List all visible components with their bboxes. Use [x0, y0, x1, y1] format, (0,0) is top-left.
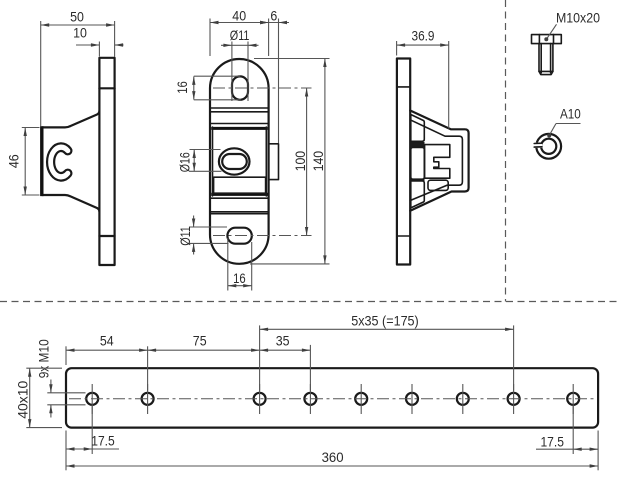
front view stadium outline	[210, 59, 269, 264]
dimension 6	[260, 8, 289, 143]
central block	[211, 127, 267, 196]
dimension 35	[260, 332, 311, 390]
svg-text:100: 100	[292, 151, 308, 172]
dimension 17.5 left	[66, 406, 119, 470]
svg-text:5x35 (=175): 5x35 (=175)	[351, 312, 419, 328]
svg-text:75: 75	[193, 332, 207, 348]
clip housing outer profile	[410, 111, 468, 211]
svg-text:17.5: 17.5	[91, 433, 115, 449]
dimension 40x10	[15, 368, 62, 427]
svg-text:M10x20: M10x20	[556, 9, 600, 25]
bolt label M10x20	[544, 9, 600, 41]
bolt head	[532, 35, 562, 44]
plate horizontal centerline	[69, 398, 595, 400]
svg-text:17.5: 17.5	[540, 433, 564, 449]
hole vertical centerlines	[92, 384, 573, 414]
step lines lower	[210, 197, 268, 199]
dimension 100	[292, 88, 309, 236]
dimension 360	[66, 449, 598, 468]
svg-text:Ø16: Ø16	[176, 152, 192, 172]
dimension 17.5 right	[536, 406, 598, 470]
dimension 75	[148, 325, 260, 390]
C-clip profile	[47, 143, 71, 180]
column segment middle	[411, 147, 425, 179]
right tab	[269, 144, 279, 180]
right view bar	[397, 59, 410, 265]
svg-text:10: 10	[73, 25, 87, 41]
svg-text:9x M10: 9x M10	[35, 339, 51, 378]
E-shaped clip section	[425, 145, 450, 179]
svg-text:16: 16	[174, 81, 190, 94]
svg-text:35: 35	[276, 332, 290, 348]
clip housing inner profile	[410, 120, 462, 201]
centre hole ellipse	[219, 148, 250, 174]
centerline top hole	[213, 87, 312, 89]
inner lower rectangle	[214, 177, 266, 193]
column gap dark band lower	[411, 179, 425, 181]
dimension 5x35 (=175)	[260, 312, 514, 390]
clip lower pocket	[428, 180, 448, 190]
horizontal dashed separator	[0, 301, 617, 303]
dimension 16 top-left	[174, 76, 241, 100]
dimension Ø16	[176, 150, 221, 173]
washer split	[534, 143, 542, 148]
svg-text:Ø11: Ø11	[230, 27, 250, 43]
svg-text:140: 140	[310, 151, 326, 172]
svg-text:50: 50	[70, 9, 84, 25]
dimension 36.9	[397, 28, 449, 129]
dimension 46	[6, 128, 40, 196]
dimension 16 bottom	[228, 238, 252, 291]
centerline bottom hole	[213, 235, 312, 237]
dimension Ø11 bottom	[177, 216, 229, 255]
svg-text:40x10: 40x10	[15, 380, 31, 418]
svg-text:16: 16	[233, 270, 246, 286]
svg-text:46: 46	[6, 154, 22, 168]
dimension Ø11 top	[221, 27, 259, 101]
dimension 10	[73, 25, 123, 57]
dimension 50	[41, 9, 115, 127]
svg-text:Ø11: Ø11	[177, 226, 193, 246]
column segment upper	[411, 115, 425, 142]
svg-text:360: 360	[322, 449, 344, 465]
vertical dashed separator	[505, 0, 507, 302]
dimension 40	[210, 8, 269, 56]
bolt shank	[539, 44, 553, 75]
washer inner ring	[541, 139, 556, 154]
dimension 9x M10	[35, 339, 85, 417]
top slot hole	[232, 76, 248, 99]
side view flange bar	[99, 58, 114, 265]
svg-text:40: 40	[232, 8, 246, 24]
step lines upper	[210, 107, 268, 109]
side view plate profile	[42, 111, 99, 212]
bottom slot hole	[227, 228, 251, 244]
svg-text:A10: A10	[560, 106, 581, 122]
centre obround Ø16	[222, 154, 247, 169]
plate outline	[66, 368, 598, 427]
plate holes	[86, 393, 579, 405]
washer label A10	[547, 106, 581, 138]
dimension 54	[66, 332, 148, 390]
svg-text:54: 54	[100, 332, 114, 348]
side view plate thick left edge	[40, 126, 43, 196]
washer outer ring	[536, 134, 561, 159]
svg-text:6: 6	[270, 8, 277, 24]
dimension 140	[250, 59, 330, 264]
column segment lower	[411, 181, 425, 208]
column gap dark band upper	[411, 142, 425, 147]
svg-text:36.9: 36.9	[412, 28, 435, 44]
